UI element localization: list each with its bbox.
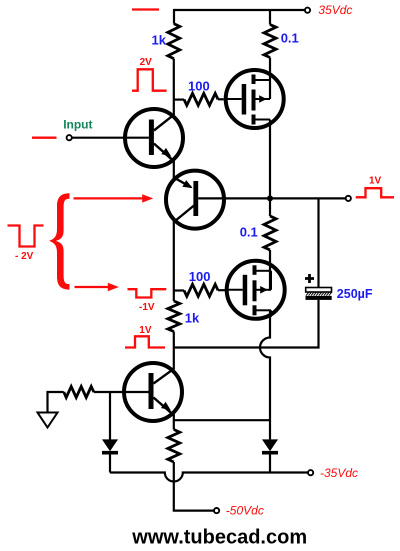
- wire x174 collector to 1k: [173, 59, 175, 115]
- transistor Q1 input NPN: [125, 109, 183, 167]
- transistor Q3 NPN (bottom): [124, 363, 182, 421]
- wire 0.1 to M2: [269, 250, 271, 290]
- resistor (emitter, unlabeled): [168, 430, 180, 463]
- node output junction dot: [267, 195, 273, 201]
- resistor 100 (top): [174, 98, 184, 100]
- svg-text:0.1: 0.1: [240, 224, 258, 239]
- svg-text:0.1: 0.1: [281, 30, 299, 45]
- mosfet M1 (top): [224, 70, 284, 128]
- terminal -50Vdc: [214, 508, 219, 513]
- red dash top-left: [132, 8, 159, 10]
- svg-text:1k: 1k: [185, 311, 200, 326]
- svg-text:www.tubecad.com: www.tubecad.com: [131, 527, 307, 549]
- arrow to -1V: [75, 286, 111, 288]
- wire Q2 collector down: [173, 221, 175, 301]
- wire cap bottom to Q3 collector node: [174, 300, 319, 348]
- svg-text:- 2V: - 2V: [15, 251, 34, 262]
- red dash input: [32, 137, 57, 139]
- waveform -1V: [128, 289, 167, 297]
- plus sign: [305, 274, 314, 283]
- wire -35V rail with hop: [110, 473, 308, 482]
- svg-text:1V: 1V: [369, 175, 382, 186]
- svg-text:100: 100: [188, 79, 210, 94]
- transistor Q2 PNP (middle): [166, 171, 224, 229]
- arrow to Q2 emitter: [74, 197, 145, 199]
- svg-text:100: 100: [189, 269, 211, 284]
- wire resistor to Q3 base: [94, 391, 149, 393]
- ground: [48, 392, 64, 413]
- wire output node to cap: [317, 198, 319, 287]
- wire Q3 emitter to resistor: [173, 414, 175, 430]
- wire 1k to Q3 collector: [173, 332, 175, 370]
- wire M1 source to output node: [269, 120, 271, 199]
- terminal 35Vdc: [305, 8, 310, 13]
- brace red: [49, 193, 70, 289]
- waveform -2V: [8, 226, 44, 247]
- wire emitter node to diode D2 column: [174, 419, 270, 421]
- resistor (ground to base): [64, 387, 94, 398]
- resistor 1k (bottom-left): [168, 301, 180, 332]
- waveform 2V pulse: [132, 69, 167, 90]
- svg-text:250µF: 250µF: [337, 287, 373, 301]
- resistor 0.1 (mid): [269, 198, 271, 216]
- svg-text:-50Vdc: -50Vdc: [226, 503, 264, 517]
- diode D2 (right): [262, 439, 278, 451]
- svg-text:1V: 1V: [139, 325, 152, 336]
- waveform 1V output: [356, 188, 394, 197]
- wire to -50V terminal: [174, 462, 214, 511]
- resistor 100 (bottom): [174, 289, 184, 291]
- waveform 1V (bottom-left): [125, 336, 165, 347]
- svg-text:2V: 2V: [140, 57, 153, 68]
- wire M2 source down with hop: [260, 310, 270, 439]
- diode D1 (left): [102, 439, 118, 451]
- terminal output: [346, 196, 351, 201]
- svg-text:-35Vdc: -35Vdc: [320, 466, 358, 480]
- svg-text:35Vdc: 35Vdc: [318, 3, 352, 17]
- wire top rail +35V: [174, 10, 305, 24]
- capacitor C1 250uF: [306, 292, 332, 295]
- terminal input: [67, 135, 72, 140]
- resistor 0.1 (top): [269, 10, 271, 25]
- wire node base to diode D1: [109, 392, 111, 440]
- wire 0.1 to M1 drain: [269, 58, 271, 100]
- resistor R 1k (top): [168, 24, 180, 59]
- wire Q1 emitter to Q2 emitter: [173, 160, 175, 179]
- svg-text:-1V: -1V: [139, 302, 155, 313]
- terminal -35Vdc: [308, 470, 313, 475]
- mosfet M2 (bottom): [225, 261, 285, 319]
- wire input to base: [72, 137, 149, 139]
- wire Q2 base / output node: [198, 197, 345, 199]
- svg-text:1k: 1k: [152, 32, 167, 47]
- svg-text:Input: Input: [63, 118, 92, 132]
